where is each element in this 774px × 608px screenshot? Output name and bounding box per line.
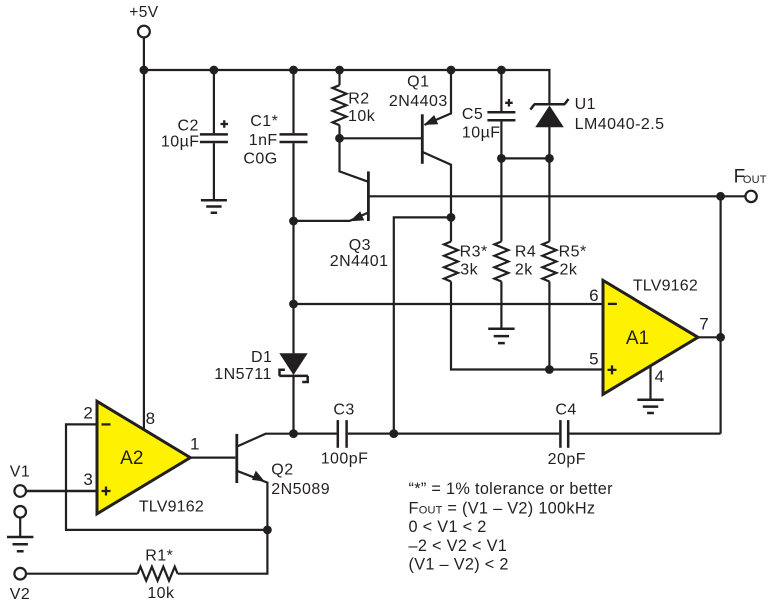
resistor R5 xyxy=(542,158,586,369)
node C5 bottom junction xyxy=(497,154,506,163)
svg-text:R5*: R5* xyxy=(559,244,587,261)
svg-text:V1: V1 xyxy=(10,463,30,480)
svg-text:10k: 10k xyxy=(147,585,175,602)
svg-text:+5V: +5V xyxy=(129,4,158,21)
svg-text:10µF: 10µF xyxy=(161,134,200,151)
svg-text:–2 < V2 < V1: –2 < V2 < V1 xyxy=(409,537,508,555)
svg-text:U1: U1 xyxy=(575,96,596,113)
wire FOUT stub xyxy=(721,195,745,197)
node R5 / +input junction xyxy=(545,365,554,374)
ground (C2) xyxy=(201,200,227,213)
svg-text:C2: C2 xyxy=(177,117,198,134)
node C2 bus junction xyxy=(210,66,219,75)
svg-text:R3*: R3* xyxy=(460,244,488,261)
transistor Q2 xyxy=(237,434,330,530)
svg-text:Q3: Q3 xyxy=(349,237,371,254)
node FOUT junction xyxy=(716,192,725,201)
svg-text:C5: C5 xyxy=(462,106,483,123)
svg-text:20pF: 20pF xyxy=(548,451,586,468)
svg-text:4: 4 xyxy=(655,367,664,386)
op-amp A1 xyxy=(589,277,709,394)
svg-text:D1: D1 xyxy=(251,349,272,366)
svg-text:2: 2 xyxy=(83,403,92,422)
svg-text:100pF: 100pF xyxy=(321,451,369,468)
resistor R1 xyxy=(27,530,268,602)
svg-text:C4: C4 xyxy=(555,402,576,419)
svg-text:2k: 2k xyxy=(560,262,578,279)
svg-text:6: 6 xyxy=(589,286,598,305)
wire A2 output xyxy=(190,457,235,459)
wire A1 inverting input xyxy=(294,303,604,305)
svg-text:5: 5 xyxy=(589,350,598,369)
wire +5V stem xyxy=(143,38,145,70)
node Q1 collector / R3 junction xyxy=(447,213,456,222)
capacitor C2 xyxy=(161,70,228,199)
V1 terminal xyxy=(10,463,30,497)
resistor R3 xyxy=(444,217,603,369)
node Q2 emitter / feedback junction xyxy=(263,526,272,535)
capacitor C1 xyxy=(243,70,307,167)
svg-text:R4: R4 xyxy=(515,244,536,261)
svg-text:1: 1 xyxy=(190,435,199,454)
FOUT terminal xyxy=(734,166,767,202)
node C1 bus junction xyxy=(289,66,298,75)
wire A1 output xyxy=(698,336,721,338)
svg-text:TLV9162: TLV9162 xyxy=(633,277,698,294)
wire A1 pin 4 stem xyxy=(649,366,651,399)
svg-text:2k: 2k xyxy=(515,262,533,279)
transistor Q1 xyxy=(340,70,452,217)
svg-text:1nF: 1nF xyxy=(249,132,278,149)
ground (R4) xyxy=(488,329,514,343)
wire Q3 base to FOUT net xyxy=(368,195,720,197)
svg-text:A2: A2 xyxy=(120,448,143,469)
svg-text:Q2: Q2 xyxy=(271,462,293,479)
wire branch to C3 net xyxy=(394,217,451,433)
op-amp A2 xyxy=(83,401,204,515)
svg-text:2N5089: 2N5089 xyxy=(271,481,330,498)
svg-text:LM4040-2.5: LM4040-2.5 xyxy=(575,116,665,133)
node R2 bottom / Q1 base junction xyxy=(335,134,344,143)
wire V1 to A2 +input xyxy=(27,490,97,493)
node Q3 emitter / C1 junction xyxy=(289,217,298,226)
resistor R2 xyxy=(333,70,376,138)
ground (input jack) xyxy=(7,537,33,551)
capacitor C4 xyxy=(548,402,721,469)
svg-text:C3: C3 xyxy=(333,402,354,419)
capacitor C5 xyxy=(462,70,516,158)
+5V terminal xyxy=(129,4,158,37)
capacitor C3 xyxy=(294,402,560,468)
ground jack terminal xyxy=(14,506,26,536)
svg-text:3k: 3k xyxy=(460,262,478,279)
svg-text:R1*: R1* xyxy=(145,548,173,565)
ground (A1 pin 4) xyxy=(637,400,663,413)
resistor R4 xyxy=(494,158,536,327)
wire A2 feedback (inverting input) xyxy=(66,424,267,530)
note text block xyxy=(409,480,614,574)
wire FOUT right vertical xyxy=(719,196,721,433)
svg-text:(V1 – V2) < 2: (V1 – V2) < 2 xyxy=(409,555,509,573)
svg-text:OUT: OUT xyxy=(743,174,767,186)
zener U1 xyxy=(530,70,664,158)
node C5 bus junction xyxy=(497,66,506,75)
svg-text:R2: R2 xyxy=(348,91,369,108)
node A1 output junction xyxy=(716,333,725,342)
node Q1 emitter bus junction xyxy=(447,66,456,75)
svg-text:8: 8 xyxy=(146,409,155,428)
svg-text:7: 7 xyxy=(699,314,708,333)
node -input / D1 net junction xyxy=(289,300,298,309)
transistor Q3 xyxy=(294,138,389,270)
svg-text:A1: A1 xyxy=(626,328,649,349)
V2 terminal xyxy=(10,568,30,603)
svg-text:Q1: Q1 xyxy=(407,74,429,91)
svg-text:C1*: C1* xyxy=(250,113,278,130)
svg-text:2N4401: 2N4401 xyxy=(330,253,389,270)
svg-text:“*” = 1% tolerance or better: “*” = 1% tolerance or better xyxy=(409,480,614,498)
svg-text:2N4403: 2N4403 xyxy=(389,93,448,110)
node bus-left junction xyxy=(140,66,149,75)
svg-text:10k: 10k xyxy=(348,108,376,125)
svg-text:V2: V2 xyxy=(10,586,30,603)
svg-text:10µF: 10µF xyxy=(462,124,501,141)
svg-text:C0G: C0G xyxy=(243,150,277,167)
wire C1 bottom to D1 node xyxy=(292,143,294,353)
svg-text:3: 3 xyxy=(83,470,92,489)
node U1 bottom junction xyxy=(545,154,554,163)
svg-text:TLV9162: TLV9162 xyxy=(139,498,204,515)
svg-text:1N5711: 1N5711 xyxy=(214,366,272,383)
node D1 / Q2 collector / C3 junction xyxy=(289,429,298,438)
node R2 bus junction xyxy=(335,66,344,75)
diode D1 xyxy=(214,349,308,434)
wire C5/U1 bottom link xyxy=(501,157,549,159)
wire +5V bus xyxy=(144,69,551,71)
node C3 / Q1-collector-branch junction xyxy=(389,429,398,438)
wire +5V rail down to A2 pin 8 xyxy=(143,70,145,430)
svg-text:0 < V1 < 2: 0 < V1 < 2 xyxy=(409,518,487,536)
